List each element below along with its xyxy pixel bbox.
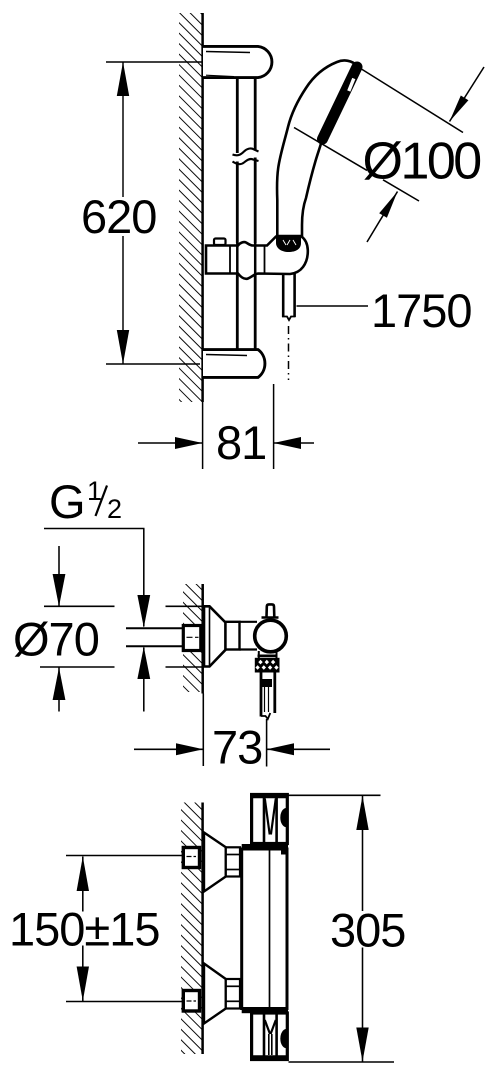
svg-text:2: 2 <box>107 494 122 524</box>
svg-text:620: 620 <box>81 190 156 243</box>
svg-text:305: 305 <box>330 904 405 957</box>
svg-text:81: 81 <box>216 416 266 469</box>
svg-text:1750: 1750 <box>371 284 472 337</box>
svg-text:Ø100: Ø100 <box>363 133 481 191</box>
svg-text:Ø70: Ø70 <box>13 613 99 666</box>
svg-text:1: 1 <box>87 476 102 506</box>
svg-text:G: G <box>49 475 85 528</box>
svg-text:150±15: 150±15 <box>9 903 160 956</box>
svg-text:73: 73 <box>212 721 262 774</box>
